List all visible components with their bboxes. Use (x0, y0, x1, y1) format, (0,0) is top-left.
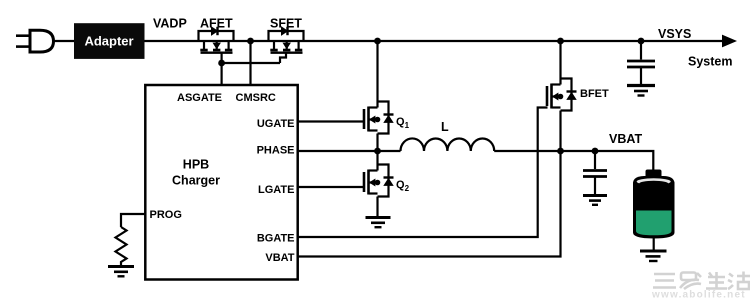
node VADP/CMSRC junction (247, 38, 254, 45)
svg-text:Adapter: Adapter (84, 34, 133, 49)
wire UGATE to Q1 gate (298, 120, 364, 122)
ground (C2) (583, 196, 607, 205)
ground (PROG resistor) (108, 267, 134, 277)
wire ASGATE net (horizontal) (222, 62, 280, 64)
svg-text:PHASE: PHASE (257, 145, 295, 157)
char huo (729, 274, 733, 277)
wire VADP rail (adapter to CMSRC node) (145, 40, 251, 42)
svg-text:www.abolife.net: www.abolife.net (651, 290, 746, 301)
wire phase node to Q2 drain (376, 151, 378, 171)
node C2 junction (592, 148, 599, 155)
char sheng (708, 276, 725, 279)
node BFET source junction (557, 148, 564, 155)
wire AFET gate to ASGATE node (221, 53, 223, 63)
wire inductor to VBAT rail (494, 150, 560, 152)
transistor SFET (P-FET with body diode) (269, 27, 304, 53)
svg-text:CMSRC: CMSRC (236, 92, 276, 104)
capacitor C1 (VSYS) (627, 41, 655, 84)
svg-text:L: L (441, 120, 449, 134)
svg-text:BFET: BFET (580, 88, 609, 100)
svg-text:VSYS: VSYS (658, 27, 691, 41)
wire BFET drain from rail (559, 41, 561, 85)
wire BGATE to BFET gate (298, 108, 548, 238)
transistor Q2 (N-FET with body diode) (364, 165, 394, 197)
svg-text:VADP: VADP (153, 17, 187, 31)
svg-text:HPB: HPB (183, 158, 209, 172)
wire BFET source to VBAT rail (559, 111, 561, 152)
wire PHASE to phase node (298, 150, 401, 152)
transistor BFET (N-FET with body diode) (547, 79, 577, 111)
inductor L (401, 138, 495, 151)
svg-text:SFET: SFET (270, 17, 302, 31)
svg-text:VBAT: VBAT (265, 252, 294, 264)
svg-text:UGATE: UGATE (257, 118, 295, 130)
wire rail BFET node to C1 node (561, 40, 642, 42)
node BFET drain junction (557, 38, 564, 45)
svg-text:PROG: PROG (150, 209, 182, 221)
char yi stylized (681, 273, 696, 281)
wire VBAT rail to battery (561, 151, 654, 173)
wire Q2 source to ground (376, 197, 378, 217)
capacitor C2 (VBAT) (583, 151, 607, 194)
wire VSYS with arrow to System (641, 35, 737, 48)
svg-text:AFET: AFET (200, 17, 233, 31)
node Q1 drain junction (374, 38, 381, 45)
Adapter box (74, 23, 145, 59)
wire PROG to resistor (121, 214, 145, 227)
svg-text:System: System (688, 55, 732, 69)
battery BT1 (633, 170, 675, 239)
node C1 junction (638, 38, 645, 45)
watermark (653, 272, 750, 290)
wire rail Q1 node to BFET node (378, 40, 561, 42)
wire rail CMSRC node to Q1 drain node (251, 40, 378, 42)
char san (654, 273, 675, 276)
svg-text:ASGATE: ASGATE (177, 92, 222, 104)
node phase junction (374, 148, 381, 155)
ground (Q2 source) (366, 218, 391, 228)
wire SFET gate to ASGATE net (280, 53, 286, 63)
svg-text:LGATE: LGATE (258, 184, 294, 196)
ground (battery) (640, 251, 667, 261)
wire Q1 drain from rail (376, 41, 378, 108)
HPB Charger box U1 (145, 85, 297, 280)
resistor R1 (116, 227, 127, 266)
wire battery to ground (653, 239, 655, 251)
svg-text:Charger: Charger (172, 174, 220, 188)
wire LGATE to Q2 gate (298, 186, 364, 188)
wire plug to adapter (54, 40, 75, 42)
AC plug P1 (16, 30, 54, 52)
ground (C1) (627, 86, 655, 96)
transistor AFET (P-FET with body diode) (199, 27, 234, 53)
wire Q1 source to phase node (376, 134, 378, 154)
svg-text:VBAT: VBAT (609, 132, 642, 146)
transistor Q1 (N-FET with body diode) (364, 102, 394, 134)
svg-text:BGATE: BGATE (257, 233, 295, 245)
wire ASGATE to charger pin (221, 63, 223, 85)
node ASGATE junction (218, 60, 225, 67)
wire CMSRC to charger pin (249, 41, 251, 85)
wire VBAT pin to battery rail (298, 151, 561, 257)
